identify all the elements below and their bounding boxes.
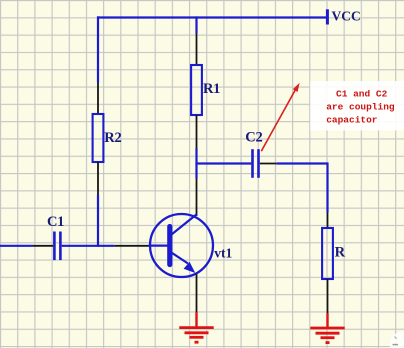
svg-text:C2: C2 <box>245 129 262 145</box>
svg-text:C1 and C2: C1 and C2 <box>336 89 388 100</box>
svg-text:R: R <box>335 245 346 261</box>
resistor R1 <box>191 65 202 115</box>
transistor vt1 emitter arrowhead <box>184 262 196 273</box>
capacitor C2 plate 1 <box>251 149 254 178</box>
svg-text:R1: R1 <box>203 81 220 97</box>
transistor vt1 circle <box>150 214 213 277</box>
pin: R2 pin 2 <box>97 162 99 195</box>
capacitor C1 plate 2 <box>59 232 62 261</box>
svg-text:vt1: vt1 <box>214 245 232 260</box>
wire: collector node to C2 <box>195 162 251 164</box>
pin: vt1 collector <box>196 179 198 217</box>
transistor vt1 base line inside circle <box>149 245 169 247</box>
svg-text:VCC: VCC <box>332 9 361 24</box>
wire: R2 to base node <box>97 195 99 247</box>
annotation arrowhead <box>293 83 300 92</box>
ground GND2 (under R) <box>310 313 344 343</box>
pin: R pin 2 <box>327 279 329 313</box>
capacitor C1 plate 1 <box>53 232 56 261</box>
svg-text:are coupling: are coupling <box>326 102 395 113</box>
wire: output corner down to R <box>326 162 328 212</box>
annotation arrow to C2 <box>261 88 296 151</box>
watermark blob bottom-right <box>390 332 404 348</box>
svg-text:C1: C1 <box>47 214 64 230</box>
pin: C2 right pin <box>260 163 277 165</box>
resistor R2 <box>93 114 104 162</box>
ground GND1 (under vt1 emitter) <box>179 312 213 342</box>
wire: C2 to output corner <box>276 162 327 164</box>
capacitor C2 plate 2 <box>257 149 260 178</box>
wire: VCC rail <box>97 16 328 18</box>
pin: R1 pin 1 <box>196 34 198 66</box>
transistor vt1 emitter stroke <box>172 253 188 264</box>
wire: input from left edge to C1 <box>0 245 33 247</box>
pin: R pin 1 <box>327 213 329 229</box>
wire: rail down to R2 <box>97 16 99 82</box>
wire: R1 to collector node <box>195 148 197 179</box>
pin: R1 pin 2 <box>196 115 198 148</box>
transistor vt1 base bar <box>167 227 172 265</box>
power symbol VCC bar <box>326 9 329 24</box>
transistor vt1 collector stroke <box>172 214 198 235</box>
pin: R2 pin 1 <box>97 83 99 115</box>
pin: C1 left pin <box>33 245 53 247</box>
pin: vt1 emitter <box>196 274 198 312</box>
wire: C1 to base node <box>62 245 115 247</box>
svg-text:R2: R2 <box>104 130 121 146</box>
pin: vt1 base <box>114 245 148 247</box>
resistor R <box>322 228 333 279</box>
svg-text:capacitor: capacitor <box>326 115 378 126</box>
annotation callout box <box>310 81 404 131</box>
wire: rail down to R1 <box>195 16 197 33</box>
